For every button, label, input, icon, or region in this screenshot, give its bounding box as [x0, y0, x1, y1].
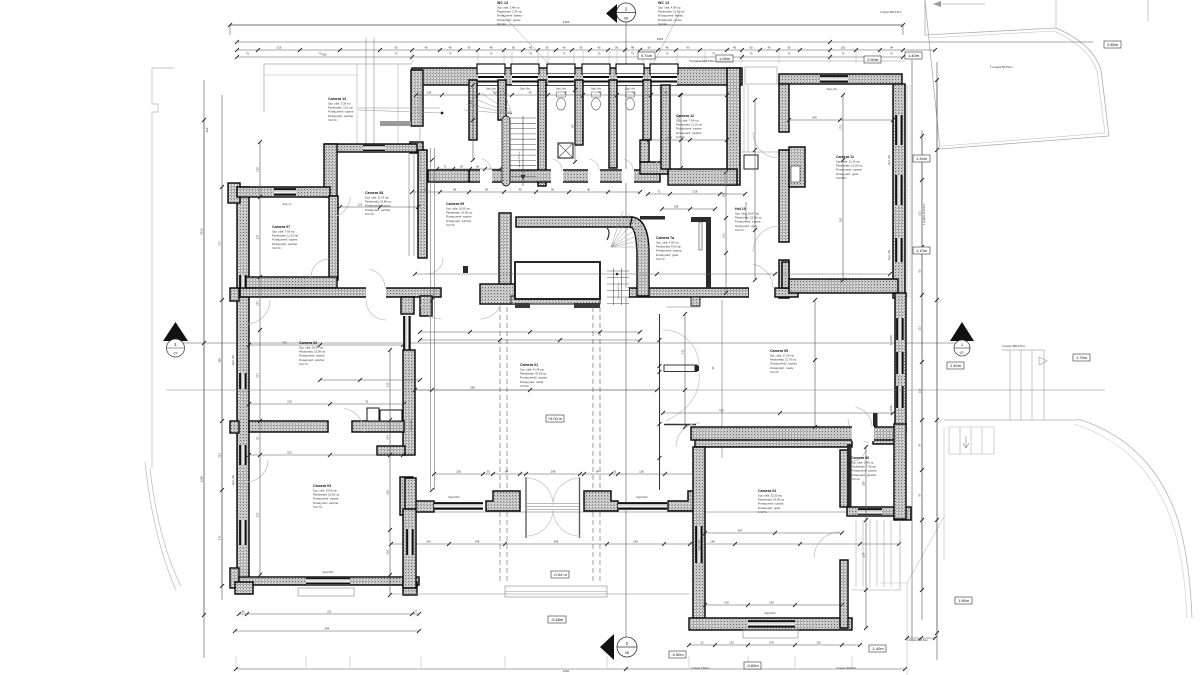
svg-text:Sup. utila: 2.49 mp: Sup. utila: 2.49 mp — [851, 461, 874, 465]
svg-text:Finisaj pard.: genrbet: Finisaj pard.: genrbet — [851, 473, 876, 477]
window — [306, 577, 350, 585]
camera 07 north wall — [237, 187, 330, 197]
svg-text:Camera 03: Camera 03 — [313, 484, 331, 488]
svg-text:48: 48 — [453, 187, 457, 191]
terrace outline camera 13 — [264, 64, 412, 112]
svg-text:h=2.4m: h=2.4m — [497, 22, 507, 26]
svg-text:Finisaj pereti: vopsea: Finisaj pereti: vopsea — [299, 354, 325, 358]
svg-text:Camera 01: Camera 01 — [520, 363, 538, 367]
svg-text:26: 26 — [476, 164, 480, 168]
c03 south wall — [239, 577, 419, 585]
section marker bottom — [600, 634, 614, 660]
svg-text:71: 71 — [443, 164, 447, 168]
svg-text:T treapta 16/17cm: T treapta 16/17cm — [617, 282, 620, 300]
svg-text:148: 148 — [475, 539, 480, 543]
wall west nub4 — [230, 568, 239, 588]
svg-text:110: 110 — [816, 640, 821, 644]
svg-text:90: 90 — [564, 91, 568, 95]
c03 east wall — [403, 509, 416, 588]
svg-text:46: 46 — [528, 91, 532, 95]
svg-text:317: 317 — [218, 535, 222, 540]
svg-text:71: 71 — [657, 190, 661, 194]
svg-text:171: 171 — [839, 125, 843, 130]
svg-text:36: 36 — [241, 609, 245, 613]
svg-text:90: 90 — [424, 187, 428, 191]
top dimension chain — [237, 49, 935, 51]
svg-text:406: 406 — [205, 127, 209, 132]
svg-text:311: 311 — [681, 349, 685, 354]
window — [895, 238, 903, 262]
svg-text:Sget4/3bc: Sget4/3bc — [890, 334, 893, 345]
svg-text:h=2.7m: h=2.7m — [770, 370, 780, 374]
c11 top window — [820, 75, 848, 83]
wall stub below spine — [420, 296, 432, 316]
svg-text:h=2.55m: h=2.55m — [836, 176, 847, 180]
room label WC 14 — [497, 1, 522, 26]
wall c07 south wall — [246, 277, 337, 288]
svg-text:140: 140 — [724, 601, 729, 605]
svg-text:Sup. utila: 7.65 mp: Sup. utila: 7.65 mp — [272, 230, 295, 234]
svg-text:Finisaj pard.: fredecm: Finisaj pard.: fredecm — [676, 131, 703, 135]
svg-text:136: 136 — [386, 550, 390, 555]
svg-text:WC 14: WC 14 — [497, 1, 508, 5]
svg-text:Pardoseala: 11.24 mp: Pardoseala: 11.24 mp — [272, 234, 299, 238]
svg-text:90: 90 — [579, 46, 583, 50]
svg-text:Sup. utila: 19.07 mp: Sup. utila: 19.07 mp — [735, 212, 759, 216]
svg-text:-0.04 m: -0.04 m — [553, 572, 567, 577]
svg-text:Sup. utila: 41.49 mp: Sup. utila: 41.49 mp — [520, 368, 544, 372]
room label Camera 09 — [446, 202, 473, 227]
wall camera12 east — [727, 68, 740, 185]
svg-text:104: 104 — [386, 435, 390, 440]
svg-text:-0.48m: -0.48m — [551, 617, 564, 622]
svg-text:91: 91 — [256, 436, 260, 440]
svg-text:Finisaj pereti: vopsea: Finisaj pereti: vopsea — [836, 168, 862, 172]
winder stair fan — [611, 211, 649, 247]
svg-text:h=2.6m: h=2.6m — [676, 135, 686, 139]
svg-text:48: 48 — [631, 46, 635, 50]
svg-text:90: 90 — [512, 46, 516, 50]
corner chunk — [480, 284, 515, 304]
room label Camera 05 — [770, 349, 797, 374]
svg-text:Finisaj pard.: gresie: Finisaj pard.: gresie — [658, 18, 682, 22]
door hall-east upper leaf — [664, 365, 697, 372]
svg-text:Finisaj pereti: vopsea: Finisaj pereti: vopsea — [328, 110, 354, 114]
svg-text:Finisaj pereti: vopsea: Finisaj pereti: vopsea — [851, 469, 877, 473]
svg-text:Finisaj pereti: vopsea: Finisaj pereti: vopsea — [656, 249, 682, 253]
window — [403, 316, 411, 350]
svg-text:Finisaj pard.: parchet: Finisaj pard.: parchet — [365, 208, 390, 212]
wall wc band east piece — [640, 162, 668, 174]
window — [896, 352, 904, 374]
svg-text:258: 258 — [862, 481, 866, 486]
svg-text:h=2.1m: h=2.1m — [851, 477, 861, 481]
svg-text:146: 146 — [427, 91, 432, 95]
svg-text:Finisaj pereti: vopsea: Finisaj pereti: vopsea — [365, 204, 391, 208]
svg-text:90: 90 — [647, 46, 651, 50]
svg-text:Finisaj pereti: vopsea: Finisaj pereti: vopsea — [272, 238, 298, 242]
misc door arcs — [366, 300, 386, 320]
svg-text:Sup. utila: 24.50 mp: Sup. utila: 24.50 mp — [313, 489, 337, 493]
svg-text:1.40m: 1.40m — [950, 363, 962, 368]
svg-text:96: 96 — [460, 164, 464, 168]
svg-text:Finisaj pard.: inside: Finisaj pard.: inside — [520, 380, 544, 384]
svg-text:240: 240 — [667, 136, 672, 140]
south pillar right — [584, 491, 618, 511]
svg-text:30: 30 — [486, 469, 490, 473]
hall east boundary — [659, 314, 661, 490]
room label Camera 06 — [851, 456, 877, 481]
svg-text:T treapta 50/75cm: T treapta 50/75cm — [990, 65, 1013, 69]
svg-text:Camera 08: Camera 08 — [365, 191, 383, 195]
svg-text:4 trepte 98/12.5cm: 4 trepte 98/12.5cm — [1002, 344, 1026, 348]
camera 05 east wall — [895, 293, 906, 432]
svg-text:1.40m: 1.40m — [908, 53, 920, 58]
interior dimension lines — [166, 389, 1105, 391]
svg-text:12: 12 — [700, 640, 704, 644]
room label Camera 12 — [676, 114, 703, 139]
svg-text:675: 675 — [769, 640, 774, 644]
svg-text:h=2.4m: h=2.4m — [658, 22, 668, 26]
wall west nub — [228, 183, 240, 203]
wall closet stub — [377, 446, 405, 455]
svg-text:Finisaj pard.: parchet: Finisaj pard.: parchet — [328, 114, 353, 118]
room label Camera 11 — [836, 155, 863, 180]
svg-text:Pardoseala: 2.24 mp: Pardoseala: 2.24 mp — [497, 10, 522, 14]
svg-text:Camera 05: Camera 05 — [770, 349, 788, 353]
west exterior wall — [237, 187, 249, 586]
svg-text:h=2.7m: h=2.7m — [328, 118, 338, 122]
svg-text:Sget_2bo: Sget_2bo — [827, 88, 838, 91]
svg-text:Camera 09: Camera 09 — [446, 202, 464, 206]
svg-text:45: 45 — [597, 46, 601, 50]
wall west upper — [325, 144, 417, 152]
svg-text:358: 358 — [470, 386, 475, 390]
svg-text:45: 45 — [424, 46, 428, 50]
room label Camera 07 — [272, 225, 299, 250]
svg-text:Sup. utila: 4.39 mp: Sup. utila: 4.39 mp — [658, 6, 681, 10]
window — [239, 445, 247, 465]
svg-text:90: 90 — [485, 187, 489, 191]
svg-text:141: 141 — [839, 217, 843, 222]
svg-text:225: 225 — [386, 490, 390, 495]
svg-text:Finisaj pereti2: vopsea: Finisaj pereti2: vopsea — [770, 362, 797, 366]
svg-text:94: 94 — [890, 46, 894, 50]
svg-text:Finisaj pereti: vopsea: Finisaj pereti: vopsea — [313, 497, 339, 501]
camera 05/06 east lower wall — [894, 424, 906, 519]
window — [858, 508, 882, 516]
room label Camera 04 — [758, 489, 785, 514]
hall west wall — [401, 297, 414, 314]
svg-text:46: 46 — [587, 187, 591, 191]
svg-text:Pardoseala: 15.80 mp: Pardoseala: 15.80 mp — [365, 200, 392, 204]
curved wall camera 7a — [630, 217, 649, 296]
svg-text:150: 150 — [639, 469, 644, 473]
window — [896, 386, 904, 408]
svg-text:90: 90 — [632, 91, 636, 95]
svg-text:3 trepte 98/8.5cm: 3 trepte 98/8.5cm — [907, 638, 929, 642]
svg-text:Pardoseala: 7.28 mp: Pardoseala: 7.28 mp — [851, 465, 876, 469]
svg-text:298: 298 — [551, 469, 556, 473]
partition c08/c09 — [418, 150, 427, 258]
window — [896, 318, 904, 340]
svg-text:h=3.0m: h=3.0m — [520, 384, 530, 388]
north wing left cap — [411, 70, 423, 126]
svg-text:102: 102 — [841, 46, 846, 50]
room label Camera 08 — [365, 191, 392, 216]
svg-text:95: 95 — [571, 124, 575, 128]
room label Camera 02 — [299, 341, 326, 366]
svg-text:2.00m: 2.00m — [867, 57, 879, 62]
wall west upper vertical — [324, 144, 337, 197]
svg-text:07: 07 — [174, 352, 178, 356]
wall west nub3 — [230, 421, 239, 433]
svg-text:h=2.7m: h=2.7m — [272, 246, 282, 250]
svg-text:h=2.7m: h=2.7m — [446, 223, 456, 227]
svg-text:WC 13: WC 13 — [658, 1, 669, 5]
svg-text:203: 203 — [287, 400, 292, 404]
svg-text:105: 105 — [722, 192, 726, 197]
svg-text:2152: 2152 — [563, 669, 570, 673]
svg-text:Sup. utila: 21.16 mp: Sup. utila: 21.16 mp — [836, 160, 860, 164]
wc bottom wall — [469, 170, 660, 182]
room label Camera 01 — [520, 363, 547, 388]
neighbour building outline top-right — [925, 0, 1109, 149]
svg-text:Pardoseala: 19.06 mp: Pardoseala: 19.06 mp — [758, 498, 785, 502]
svg-text:Sget_bo: Sget_bo — [283, 203, 293, 206]
corner kerb top-left — [152, 68, 174, 468]
svg-text:832: 832 — [322, 53, 327, 57]
extension lines top — [412, 51, 880, 63]
svg-text:45: 45 — [518, 187, 522, 191]
camera 06 thin walls — [847, 444, 852, 508]
room label Camera 13 — [328, 97, 354, 122]
svg-text:Finisaj pereti: vopsea: Finisaj pereti: vopsea — [676, 127, 702, 131]
window — [434, 502, 483, 510]
door hall-east lower leaf — [664, 424, 696, 426]
svg-text:Finisaj pard.: gresie: Finisaj pard.: gresie — [497, 18, 521, 22]
steps near 949,427 — [949, 427, 994, 454]
c02/c03 partition — [249, 421, 328, 432]
window — [748, 620, 795, 628]
svg-text:Finisaj pereti: faianta: Finisaj pereti: faianta — [497, 14, 522, 18]
svg-text:Finisaj pereti: vopsea: Finisaj pereti: vopsea — [758, 502, 784, 506]
road curve right — [1078, 419, 1192, 618]
svg-text:4163: 4163 — [200, 228, 204, 235]
section marker left — [163, 322, 188, 341]
room label Camera 03 — [313, 484, 340, 509]
wc partitions — [469, 80, 477, 140]
window — [895, 115, 903, 145]
svg-text:Hol 10: Hol 10 — [735, 207, 746, 211]
svg-text:Sget_Rbc: Sget_Rbc — [232, 354, 235, 365]
svg-text:1901: 1901 — [657, 37, 664, 41]
svg-text:Sget2.Rbc: Sget2.Rbc — [636, 496, 648, 499]
washing machine — [558, 143, 573, 158]
svg-text:Sup. utila: 3.35 mp: Sup. utila: 3.35 mp — [328, 102, 351, 106]
svg-text:Camera 13: Camera 13 — [328, 97, 346, 101]
window — [239, 275, 247, 295]
svg-text:07: 07 — [960, 351, 964, 355]
leader lines WC labels — [500, 12, 680, 80]
wall left lower band — [428, 170, 469, 182]
camera 05 south wall — [691, 427, 895, 440]
svg-text:1.75m: 1.75m — [1076, 355, 1088, 360]
svg-text:113: 113 — [918, 388, 922, 393]
svg-text:h=2.7m: h=2.7m — [365, 212, 375, 216]
window — [239, 520, 247, 545]
svg-text:Finisaj pard.: grele: Finisaj pard.: grele — [656, 253, 679, 257]
svg-text:Camera 7a: Camera 7a — [656, 236, 675, 240]
svg-text:30: 30 — [613, 469, 617, 473]
svg-text:140: 140 — [426, 539, 431, 543]
svg-text:97: 97 — [918, 493, 922, 497]
thin walls hol 10 — [640, 216, 665, 220]
wall camera12 south — [668, 169, 737, 185]
svg-text:Finisaj pard.: grele: Finisaj pard.: grele — [735, 224, 758, 228]
left dimension lines — [203, 80, 205, 658]
staircase — [502, 116, 510, 186]
south pillar left — [486, 491, 520, 511]
svg-text:45: 45 — [598, 91, 602, 95]
svg-text:Camera 06: Camera 06 — [851, 456, 869, 460]
room label WC 13 — [658, 1, 685, 26]
svg-text:231: 231 — [287, 451, 292, 455]
svg-text:131: 131 — [918, 211, 922, 216]
kerb curve bottom-left — [145, 462, 181, 590]
svg-text:Finisaj pereti: vopsea: Finisaj pereti: vopsea — [735, 220, 761, 224]
svg-text:90: 90 — [787, 46, 791, 50]
svg-text:157: 157 — [256, 301, 260, 306]
svg-text:90: 90 — [394, 46, 398, 50]
section line 1 horizontal — [175, 342, 958, 344]
svg-text:Sup. utila: 19.04 mp: Sup. utila: 19.04 mp — [299, 346, 323, 350]
partition c07/c08 — [329, 196, 338, 280]
svg-text:40: 40 — [733, 46, 737, 50]
svg-text:Sget1.Rbc: Sget1.Rbc — [698, 539, 701, 551]
window — [695, 526, 703, 563]
svg-text:Camera 04: Camera 04 — [758, 489, 776, 493]
svg-text:Sget2.Rbc: Sget2.Rbc — [448, 496, 460, 499]
svg-text:475: 475 — [719, 409, 724, 413]
section marker right — [950, 322, 974, 341]
wall stair east wall — [538, 80, 546, 186]
svg-text:384: 384 — [325, 626, 330, 630]
svg-text:Finisaj pard.: masiv: Finisaj pard.: masiv — [770, 366, 794, 370]
svg-text:-0.50m: -0.50m — [671, 652, 684, 657]
4 trepte steps right — [944, 350, 1078, 420]
svg-text:Camera 12: Camera 12 — [676, 114, 694, 118]
svg-text:Sup. utila: 16.95 mp: Sup. utila: 16.95 mp — [446, 207, 470, 211]
top dimension line 2 — [237, 41, 1093, 43]
svg-text:Sup. utila: 22.50 mp: Sup. utila: 22.50 mp — [758, 494, 782, 498]
window — [406, 529, 414, 555]
svg-text:Pardoseala: 15.90 mp: Pardoseala: 15.90 mp — [299, 350, 326, 354]
window — [274, 188, 296, 196]
bottom dimension lines — [413, 511, 865, 513]
svg-text:90: 90 — [545, 46, 549, 50]
svg-text:h=2.7m: h=2.7m — [758, 510, 768, 514]
svg-text:h=2.7m: h=2.7m — [735, 228, 745, 232]
svg-text:231: 231 — [218, 453, 222, 458]
svg-text:Finisaj pereti2: vopsea: Finisaj pereti2: vopsea — [520, 376, 547, 380]
svg-text:Finisaj pereti: vopsea: Finisaj pereti: vopsea — [446, 215, 472, 219]
svg-text:Sget1.Rbc: Sget1.Rbc — [410, 419, 413, 431]
svg-text:398: 398 — [218, 358, 222, 363]
south wall east corner — [668, 491, 700, 511]
svg-text:160: 160 — [256, 167, 260, 172]
svg-text:-0.60m: -0.60m — [746, 663, 759, 668]
chimney camera 11 — [789, 147, 805, 187]
svg-text:90: 90 — [686, 46, 690, 50]
svg-text:+0.00 m: +0.00 m — [548, 416, 563, 421]
svg-text:Pardoseala: 21.03 mp: Pardoseala: 21.03 mp — [836, 164, 863, 168]
wall camera12 west wall — [661, 85, 670, 169]
svg-text:Pardoseala: 8.00 mp: Pardoseala: 8.00 mp — [656, 245, 681, 249]
svg-text:h=2.7m: h=2.7m — [299, 362, 309, 366]
spine walls — [240, 288, 441, 297]
svg-text:337: 337 — [256, 512, 260, 517]
svg-text:90: 90 — [493, 91, 497, 95]
svg-text:140: 140 — [633, 539, 638, 543]
top dimension line 1 — [230, 24, 903, 26]
svg-text:Pardoseala: 15.06 mp: Pardoseala: 15.06 mp — [446, 211, 473, 215]
svg-text:Pardoseala: 22.56 mp: Pardoseala: 22.56 mp — [735, 216, 762, 220]
svg-text:h=2.7m: h=2.7m — [656, 257, 666, 261]
svg-text:131: 131 — [918, 326, 922, 331]
svg-text:1.10m: 1.10m — [916, 248, 928, 253]
svg-text:213: 213 — [386, 382, 390, 387]
svg-text:Sget_Rbc: Sget_Rbc — [232, 474, 235, 485]
svg-text:91: 91 — [365, 400, 369, 404]
lightwell room — [511, 296, 600, 304]
svg-text:90: 90 — [467, 46, 471, 50]
svg-text:08: 08 — [624, 17, 628, 21]
svg-text:Finisaj pard.: parchet: Finisaj pard.: parchet — [446, 219, 471, 223]
svg-text:08: 08 — [625, 651, 629, 655]
wc fixtures — [557, 98, 566, 110]
svg-text:131: 131 — [722, 233, 726, 238]
svg-text:Camera 02: Camera 02 — [299, 341, 317, 345]
svg-text:717: 717 — [218, 241, 222, 246]
svg-text:84: 84 — [596, 469, 600, 473]
west wall camera 7a — [499, 213, 511, 296]
svg-text:Finisaj pard.: parchet: Finisaj pard.: parchet — [272, 242, 297, 246]
top wall camera 7a — [516, 217, 632, 227]
svg-text:198: 198 — [674, 205, 679, 209]
svg-text:288: 288 — [554, 539, 559, 543]
svg-text:271: 271 — [256, 373, 260, 378]
svg-text:Finisaj pard.: grele: Finisaj pard.: grele — [758, 506, 781, 510]
svg-text:1 treapta 13.5x3cm: 1 treapta 13.5x3cm — [923, 204, 926, 225]
svg-text:Finisaj pard.: grele: Finisaj pard.: grele — [836, 172, 859, 176]
svg-text:2152: 2152 — [563, 20, 570, 24]
svg-text:Camera 11: Camera 11 — [836, 155, 854, 159]
svg-text:90: 90 — [749, 46, 753, 50]
svg-text:1.34m: 1.34m — [916, 156, 928, 161]
dashed column projections — [499, 307, 501, 491]
entrance doors — [525, 477, 527, 538]
svg-text:Pardoseala: 43.29 mp: Pardoseala: 43.29 mp — [520, 372, 547, 376]
svg-text:Pardoseala: 21.79 mp: Pardoseala: 21.79 mp — [770, 358, 797, 362]
svg-text:48: 48 — [448, 46, 452, 50]
svg-text:3 trepte 26/24cm: 3 trepte 26/24cm — [836, 666, 857, 670]
svg-text:Sup. utila: 7.04 mp: Sup. utila: 7.04 mp — [676, 119, 699, 123]
svg-text:0.74m: 0.74m — [641, 53, 653, 58]
svg-text:48: 48 — [489, 46, 493, 50]
svg-text:Finisaj pereti: faianta: Finisaj pereti: faianta — [658, 14, 683, 18]
camera 04 walls — [695, 435, 852, 447]
